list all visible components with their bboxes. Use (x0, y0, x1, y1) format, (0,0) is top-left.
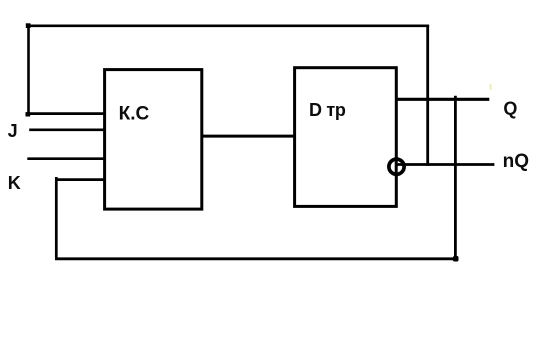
wire: Q feedback vertical (right leg from Q output) (454, 96, 457, 259)
wire: J input stub (29, 128, 104, 131)
node: junction dot at top-left corner (26, 23, 31, 28)
node: junction dot at bottom-right bend (453, 256, 459, 262)
wire: К.С output to D trigger input (203, 135, 295, 138)
wire: inverse output nQ (397, 163, 495, 166)
node: corner nub at left feedback bend (26, 112, 31, 116)
wire: third input stub (clock) (27, 157, 104, 160)
wire: Q output (396, 98, 489, 101)
wire: feedback into К.С input 1 (27, 112, 105, 115)
stray mark above Q wire end (490, 84, 492, 90)
wire: bottom feedback horizontal (55, 257, 456, 260)
wire: K input stub (55, 178, 105, 181)
svg-text:J: J (8, 121, 18, 141)
block U2: D тр (D flip-flop) box (295, 68, 397, 207)
svg-text:Q: Q (503, 99, 517, 119)
svg-text:К.С: К.С (119, 103, 150, 124)
wire: top feedback horizontal (nQ net to left side) (27, 24, 429, 27)
wire: nQ feedback vertical (down from top wire) (426, 25, 429, 166)
svg-text:nQ: nQ (503, 151, 529, 172)
block U1: К.С combinational circuit box (105, 70, 202, 210)
wire: box edge segment through bubble (395, 157, 398, 177)
wire: bottom feedback vertical (left leg) (55, 177, 58, 259)
svg-text:K: K (8, 173, 21, 193)
svg-text:D тр: D тр (309, 100, 346, 120)
inversion bubble on inverse output (389, 159, 404, 174)
wire: left feedback vertical (27, 25, 30, 116)
